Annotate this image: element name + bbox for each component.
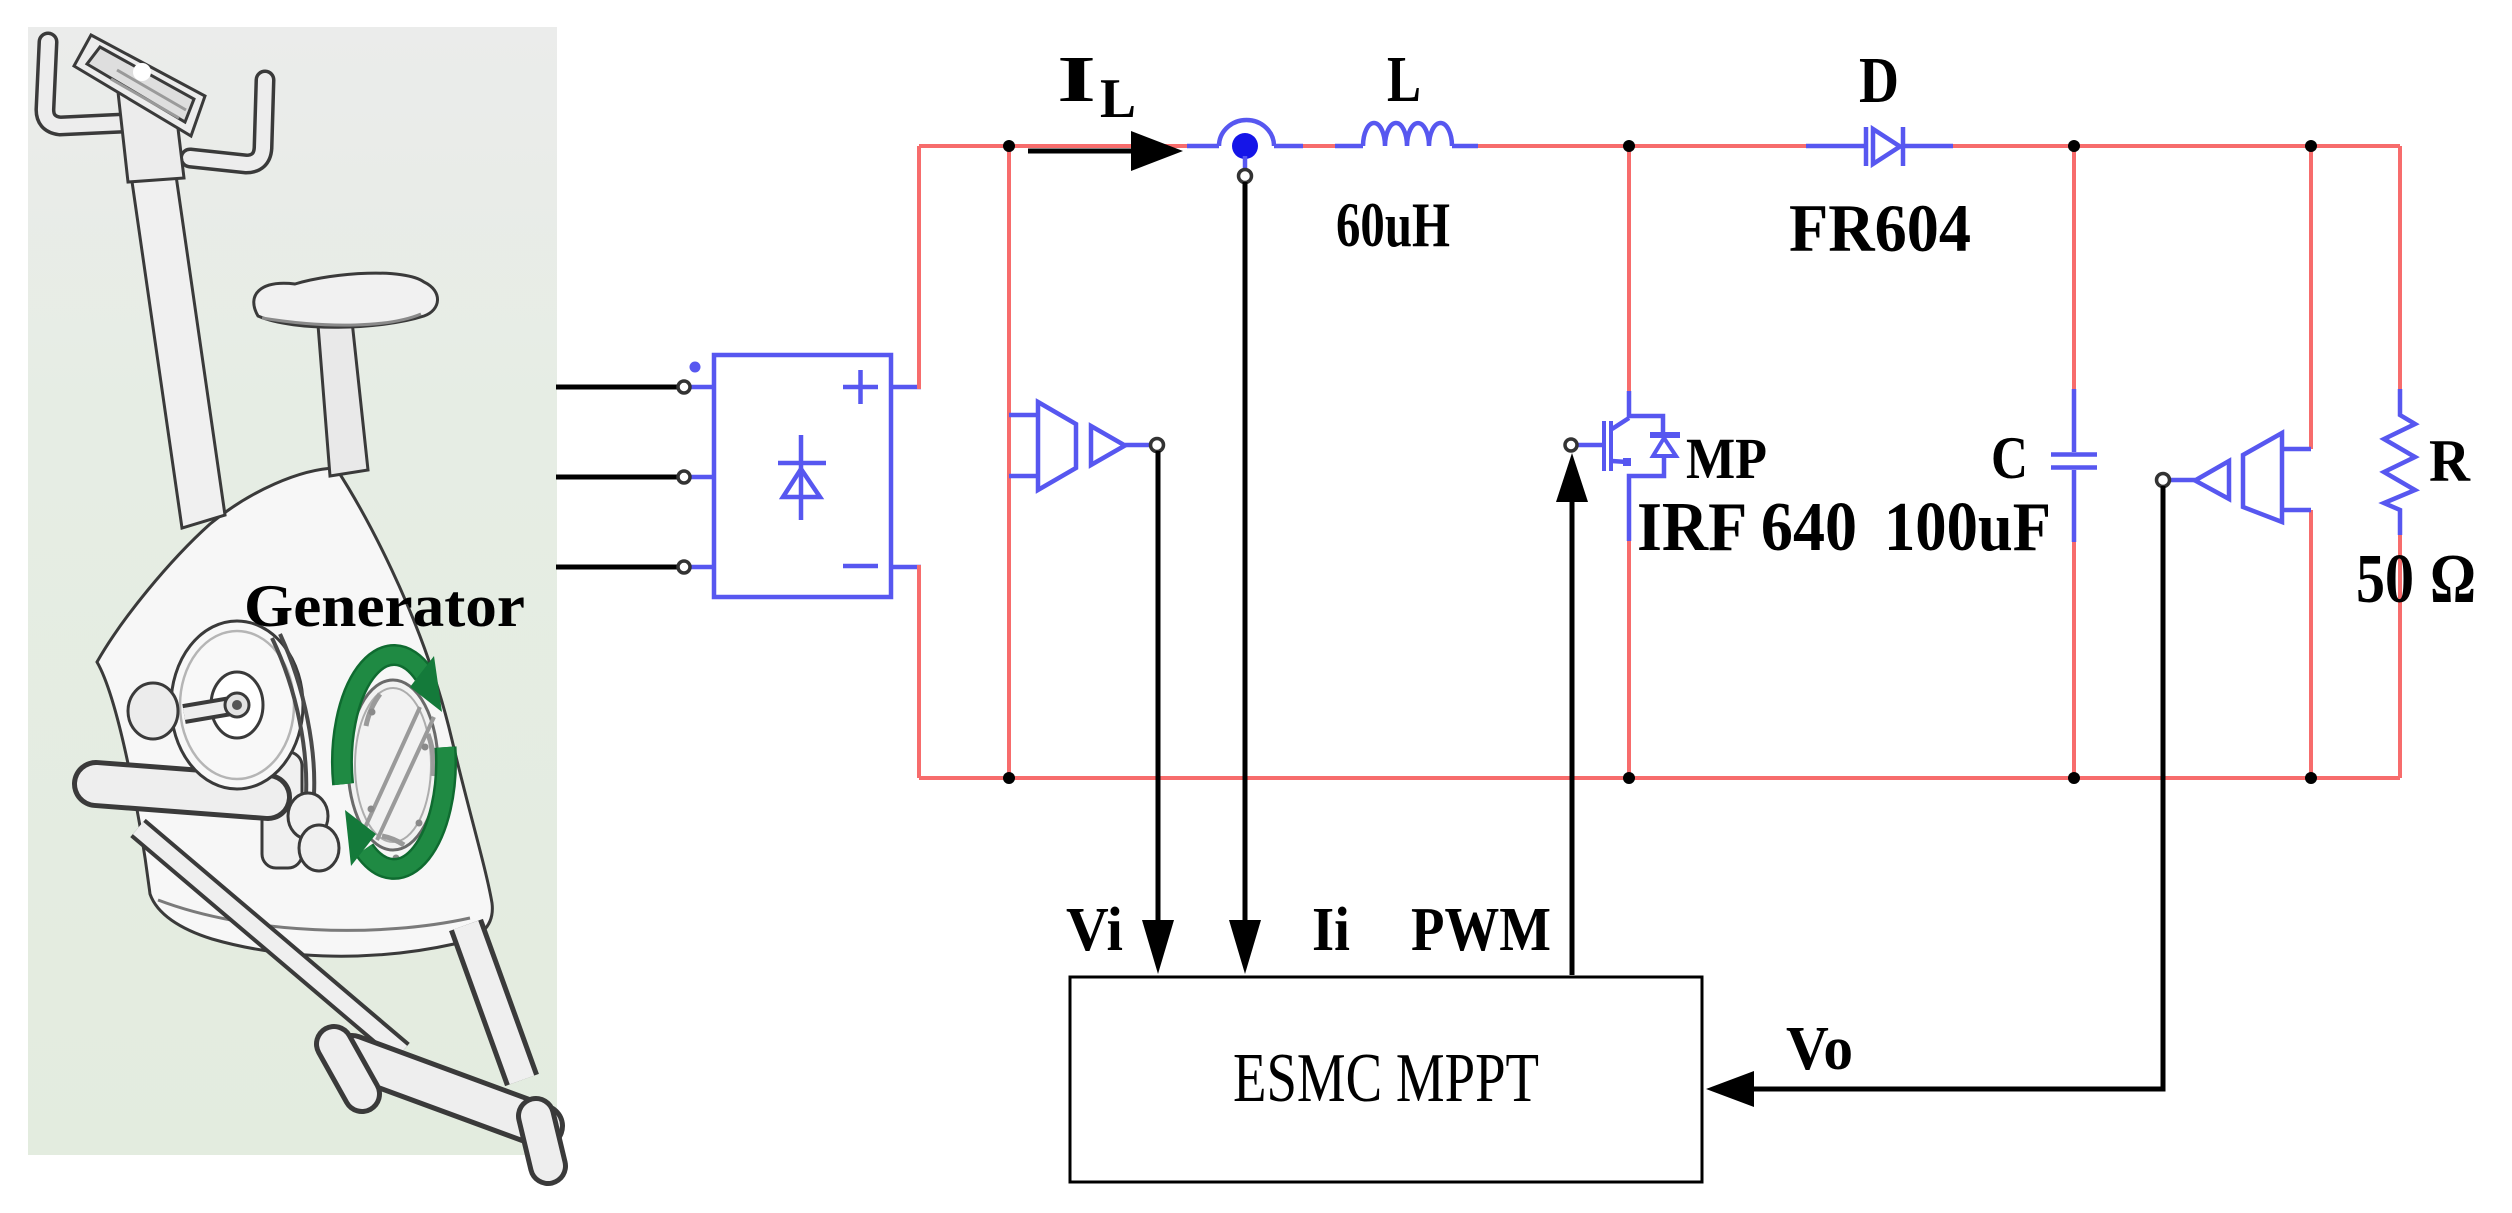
bike pedal	[128, 683, 178, 739]
signal Ii to controller	[1243, 182, 1248, 922]
rectifier terminal pin 2	[678, 471, 690, 483]
bike console mount	[118, 92, 184, 182]
inductor L 60uH	[1335, 144, 1478, 149]
MOSFET gate terminal	[1565, 439, 1577, 451]
node: capacitor branch top	[2068, 140, 2080, 152]
bike crank axle	[184, 705, 237, 714]
signal PWM from controller to gate	[1570, 498, 1575, 975]
generator illustration (exercise bike)	[96, 468, 548, 1166]
svg-text:Vi: Vi	[1066, 896, 1123, 964]
voltage sensor Vi	[1009, 402, 1164, 490]
node: Vo branch top	[2305, 140, 2317, 152]
node: capacitor branch bottom	[2068, 772, 2080, 784]
rectifier terminal pin 3	[678, 561, 690, 573]
bike body bottom trim line	[158, 900, 470, 930]
bike right handlebar	[190, 80, 265, 164]
svg-text:MP: MP	[1686, 426, 1767, 491]
bike pulley wheel	[171, 621, 303, 789]
bike base beam	[138, 828, 402, 1052]
bike display console	[74, 35, 205, 136]
bike middle foot pad	[334, 1044, 362, 1094]
svg-text:Ω: Ω	[2430, 541, 2476, 618]
arrow IL	[1028, 149, 1136, 154]
bike seat post	[318, 321, 368, 476]
bike rear leg	[466, 925, 522, 1080]
node: Vo branch bottom	[2305, 772, 2317, 784]
generator photo panel background	[28, 27, 557, 1155]
svg-text:ESMC MPPT: ESMC MPPT	[1233, 1040, 1539, 1117]
bike seat	[254, 273, 438, 327]
bike flywheel disc	[348, 680, 438, 850]
bike front stabilizer tube	[96, 784, 268, 797]
bike rear stabilizer tube	[352, 1056, 542, 1126]
rectifier terminal pin 1	[678, 381, 690, 393]
current sensor Ii	[1187, 120, 1303, 182]
wire: generator phase A	[556, 385, 678, 390]
bridge rectifier BR1	[678, 355, 921, 597]
wire Vo branch	[2309, 146, 2313, 778]
wire top rail (red)	[919, 144, 2400, 148]
bike main post (stem tube)	[45, 35, 438, 528]
bike belt roller	[288, 793, 328, 839]
bike left handlebar	[45, 42, 124, 126]
wire: generator phase B	[556, 475, 678, 480]
svg-text:FR604: FR604	[1789, 190, 1971, 266]
node: MOSFET branch bottom	[1623, 772, 1635, 784]
svg-text:60uH: 60uH	[1336, 189, 1450, 260]
svg-text:IRF 640: IRF 640	[1637, 489, 1857, 566]
voltage sensor Vo	[2157, 433, 2312, 522]
svg-text:L: L	[1387, 43, 1421, 116]
node: Vi branch top	[1003, 140, 1015, 152]
MOSFET MP (IRF 640)	[1577, 391, 1680, 541]
ESMC MPPT controller box	[1070, 977, 1702, 1182]
svg-text:Ii: Ii	[1312, 896, 1350, 964]
signal Vi to controller	[1156, 451, 1161, 922]
wire resistor branch (right edge)	[2398, 146, 2402, 778]
svg-text:Vo: Vo	[1786, 1015, 1853, 1083]
bike rear foot	[536, 1116, 548, 1166]
diode D FR604	[1806, 127, 1953, 166]
svg-text:50: 50	[2356, 541, 2414, 618]
svg-text:PWM: PWM	[1411, 896, 1551, 964]
svg-text:100uF: 100uF	[1884, 489, 2051, 566]
wire left rail upper	[919, 146, 921, 387]
wire bottom rail (red)	[919, 776, 2400, 780]
node: Vi branch bottom	[1003, 772, 1015, 784]
bike frame body shroud	[97, 468, 492, 956]
svg-text:C: C	[1991, 425, 2028, 491]
resistor R 50ohm	[2384, 389, 2415, 535]
svg-text:R: R	[2429, 428, 2471, 494]
wire: generator phase C	[556, 565, 678, 570]
wire left rail lower	[919, 567, 921, 778]
capacitor C 100uF	[2051, 389, 2097, 542]
svg-text:I: I	[1057, 43, 1096, 116]
green rotation arrow (flywheel), two arcs	[342, 655, 446, 869]
bike crank bracket plate	[262, 752, 302, 868]
wire Vi branch	[1007, 146, 1011, 778]
svg-text:D: D	[1859, 44, 1899, 117]
svg-text:Generator: Generator	[244, 573, 525, 639]
bike belt	[272, 634, 314, 796]
wire capacitor branch	[2072, 146, 2076, 778]
node: inductor-MOSFET junction	[1623, 140, 1635, 152]
svg-text:L: L	[1100, 68, 1136, 130]
signal Vo to controller	[1754, 486, 2163, 1089]
wire MOSFET branch	[1627, 146, 1631, 778]
